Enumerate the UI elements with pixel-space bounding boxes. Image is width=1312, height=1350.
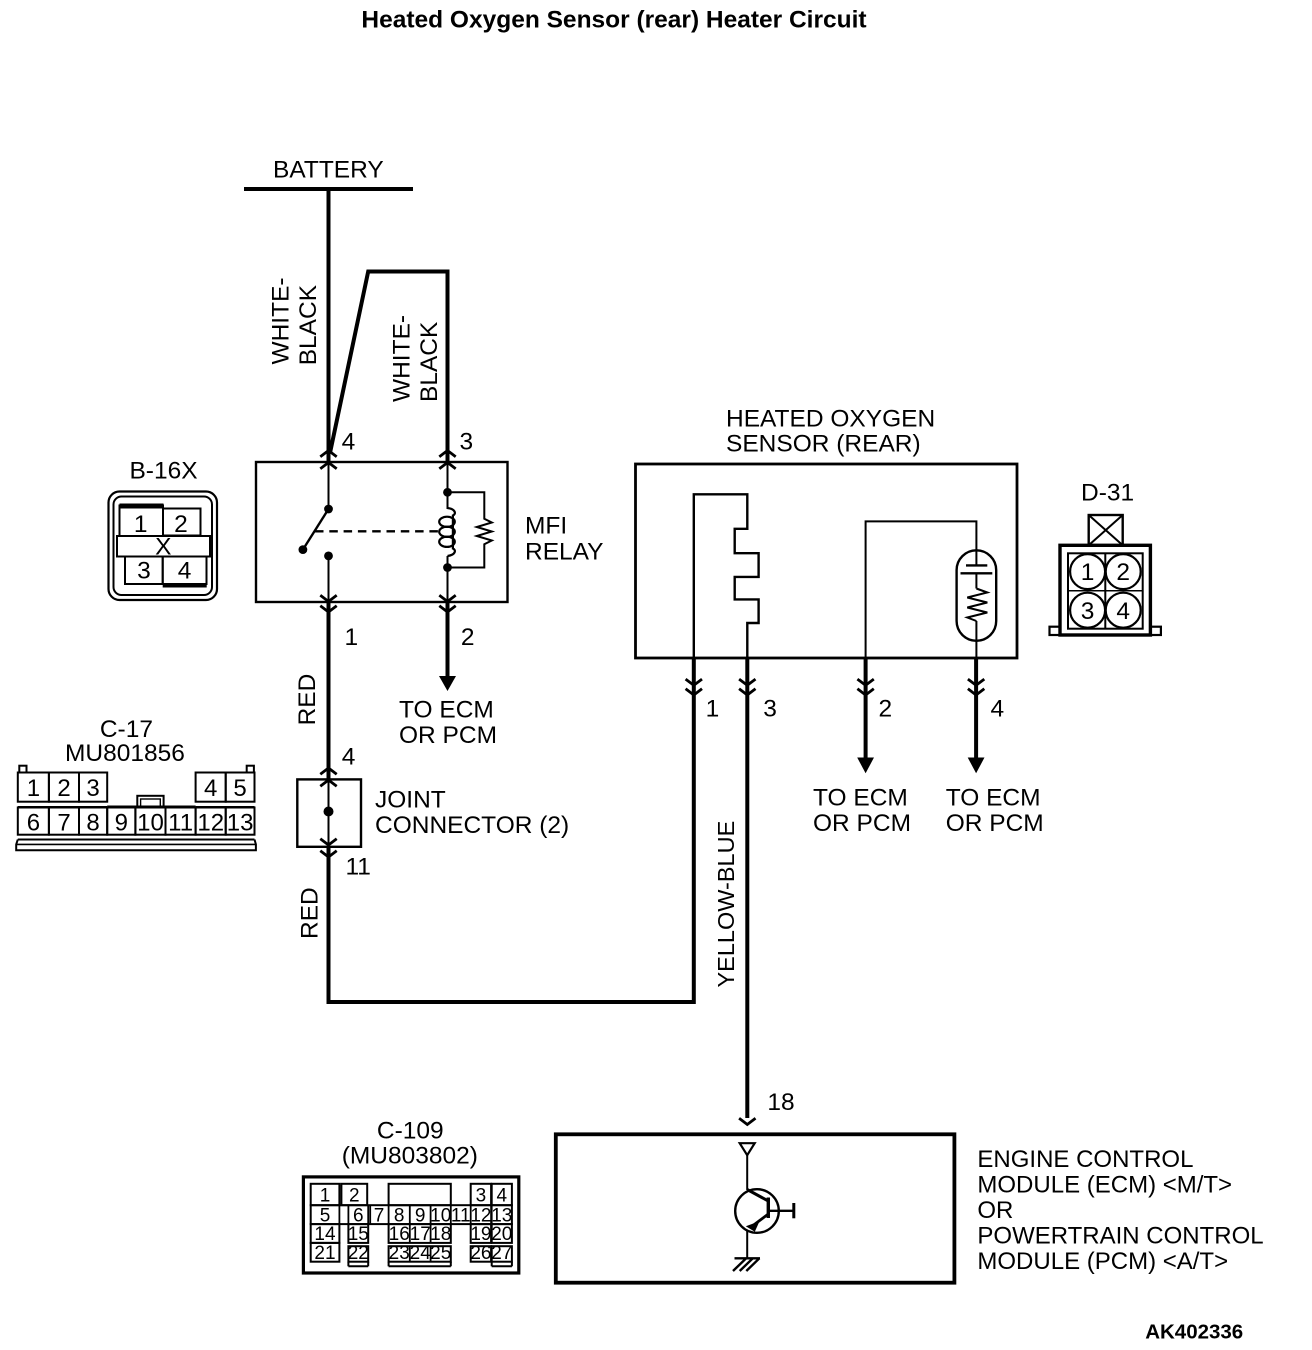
connector pin 1 of sensor: [686, 679, 702, 695]
label HEATED OXYGEN SENSOR (REAR): [726, 405, 935, 457]
svg-text:9: 9: [115, 810, 128, 837]
wire triangle to transistor: [746, 1155, 748, 1190]
svg-text:10: 10: [137, 810, 164, 837]
svg-text:WHITE-: WHITE-: [389, 315, 416, 402]
label TO ECM OR PCM (sensor pin 2): [813, 785, 911, 838]
label ENGINE CONTROL MODULE (ECM) / POWERTRAIN CONTROL MODULE (PCM): [977, 1146, 1263, 1275]
connector D-31 face: [1050, 515, 1161, 635]
connector C-109 face: [303, 1177, 518, 1273]
svg-text:BLACK: BLACK: [416, 321, 443, 402]
connector B-16X face: [109, 492, 218, 601]
svg-text:4: 4: [497, 1186, 508, 1207]
svg-text:1: 1: [706, 696, 720, 723]
connector pin 1 of MFI relay: [320, 595, 336, 612]
input triangle at ECM pin 18: [740, 1143, 755, 1155]
svg-text:2: 2: [461, 624, 475, 651]
svg-text:3: 3: [1081, 598, 1095, 625]
ground symbol: [733, 1258, 760, 1271]
heater element internals: [961, 550, 993, 658]
svg-text:25: 25: [430, 1243, 451, 1264]
svg-text:POWERTRAIN CONTROL: POWERTRAIN CONTROL: [977, 1222, 1263, 1249]
MFI relay box: [256, 462, 508, 602]
svg-text:2: 2: [174, 511, 188, 538]
connector pin 3 of MFI relay: [439, 451, 455, 469]
connector pin 11 of joint connector: [320, 839, 336, 857]
svg-text:D-31: D-31: [1081, 479, 1134, 506]
svg-text:11: 11: [346, 854, 371, 881]
battery: [244, 157, 413, 190]
svg-text:AK402336: AK402336: [1145, 1321, 1243, 1344]
joint connector box: [297, 779, 361, 846]
svg-text:1: 1: [134, 511, 148, 538]
D-31 pin numbers: [1081, 559, 1130, 625]
sensor element (zirconia comb): [694, 494, 759, 658]
svg-text:C-17: C-17: [100, 716, 153, 743]
heater circuit wires inside sensor: [866, 521, 977, 658]
svg-text:MODULE (ECM) <M/T>: MODULE (ECM) <M/T>: [977, 1171, 1232, 1198]
C-17 pin numbers: [27, 775, 254, 837]
heated oxygen sensor box: [636, 464, 1018, 658]
svg-text:B-16X: B-16X: [129, 458, 197, 485]
svg-text:3: 3: [476, 1186, 487, 1207]
svg-text:21: 21: [314, 1243, 335, 1264]
relay actuation dashed link: [315, 530, 440, 532]
svg-text:TO ECM: TO ECM: [946, 785, 1041, 812]
svg-text:OR PCM: OR PCM: [813, 810, 911, 837]
wire sensor pin 2 to ECM: [857, 658, 874, 773]
svg-text:23: 23: [389, 1243, 410, 1264]
svg-text:2: 2: [349, 1186, 360, 1207]
connector pin 3 of sensor: [739, 679, 755, 695]
svg-text:(MU803802): (MU803802): [342, 1143, 478, 1170]
svg-text:OR PCM: OR PCM: [946, 810, 1044, 837]
label TO ECM OR PCM (sensor pin 4): [946, 785, 1044, 838]
label TO ECM OR PCM (relay pin 2): [399, 697, 497, 750]
label JOINT CONNECTOR (2): [375, 786, 569, 839]
junction dot in joint connector: [324, 807, 334, 817]
B-16X pin numbers and key: [134, 511, 192, 585]
svg-text:YELLOW-BLUE: YELLOW-BLUE: [713, 821, 739, 988]
svg-text:1: 1: [27, 775, 40, 802]
svg-text:1: 1: [1081, 559, 1095, 586]
svg-text:26: 26: [470, 1243, 491, 1264]
svg-text:18: 18: [767, 1089, 794, 1116]
svg-text:6: 6: [27, 810, 40, 837]
wire WHITE-BLACK branch to MFI relay pin 3: [330, 272, 447, 463]
svg-text:2: 2: [1116, 559, 1130, 586]
connector pin 4 of sensor: [968, 679, 984, 695]
wire label WHITE-BLACK (left): [268, 277, 322, 365]
svg-text:3: 3: [763, 696, 777, 723]
svg-text:ENGINE CONTROL: ENGINE CONTROL: [977, 1146, 1193, 1173]
svg-text:WHITE-: WHITE-: [268, 277, 295, 364]
svg-text:11: 11: [168, 810, 193, 837]
svg-text:C-109: C-109: [377, 1118, 444, 1145]
svg-text:3: 3: [460, 428, 474, 455]
wire RED joint connector to heated oxygen sensor pin 1: [329, 658, 694, 1002]
wire RED relay pin 1 to joint connector: [327, 602, 331, 780]
svg-text:RED: RED: [297, 887, 324, 939]
svg-text:OR PCM: OR PCM: [399, 722, 497, 749]
svg-text:MU801856: MU801856: [65, 740, 185, 767]
svg-text:MODULE (PCM) <A/T>: MODULE (PCM) <A/T>: [977, 1248, 1228, 1275]
connector C-17 face: [16, 766, 256, 851]
connector pin 4 of MFI relay: [320, 451, 336, 469]
wire WHITE-BLACK battery to MFI relay pin 4: [327, 189, 331, 462]
relay switch contact: [299, 462, 333, 602]
wire sensor pin 4 to ECM: [968, 658, 985, 773]
svg-text:27: 27: [491, 1243, 512, 1264]
svg-text:MFI: MFI: [525, 512, 567, 539]
svg-text:RED: RED: [294, 674, 321, 726]
relay internal resistor: [448, 492, 492, 567]
svg-text:CONNECTOR (2): CONNECTOR (2): [375, 812, 569, 839]
wire relay pin 2 to ECM: [439, 602, 456, 691]
svg-text:4: 4: [991, 696, 1005, 723]
svg-text:1: 1: [345, 624, 359, 651]
svg-text:RELAY: RELAY: [525, 539, 604, 566]
svg-text:HEATED OXYGEN: HEATED OXYGEN: [726, 405, 935, 432]
svg-text:3: 3: [137, 558, 151, 585]
svg-text:TO ECM: TO ECM: [399, 697, 494, 724]
svg-text:11: 11: [451, 1205, 471, 1226]
connector pin 4 of joint connector: [320, 768, 336, 786]
relay coil: [439, 462, 455, 602]
heater element capsule: [957, 550, 997, 641]
connector pin 2 of sensor: [857, 679, 873, 695]
svg-text:7: 7: [57, 810, 70, 837]
svg-text:BATTERY: BATTERY: [273, 157, 384, 184]
ECM/PCM box: [556, 1134, 955, 1282]
connector pin 2 of MFI relay: [439, 595, 455, 612]
svg-text:1: 1: [320, 1186, 331, 1207]
svg-text:24: 24: [410, 1243, 432, 1264]
svg-text:4: 4: [342, 743, 356, 770]
wire YELLOW-BLUE sensor pin 3 to ECM pin 18: [745, 658, 749, 1118]
svg-text:12: 12: [197, 810, 224, 837]
svg-text:X: X: [155, 534, 171, 561]
connector C-17 label: [65, 716, 185, 767]
svg-text:22: 22: [348, 1243, 369, 1264]
svg-text:3: 3: [86, 775, 99, 802]
C-109 pin numbers: [314, 1186, 512, 1264]
svg-text:7: 7: [374, 1205, 385, 1226]
svg-text:Heated Oxygen Sensor (rear) He: Heated Oxygen Sensor (rear) Heater Circu…: [361, 7, 866, 34]
transistor Q1 (driver): [735, 1189, 794, 1258]
svg-text:BLACK: BLACK: [295, 284, 322, 365]
label MFI RELAY: [525, 512, 604, 565]
svg-text:2: 2: [879, 696, 893, 723]
connector pin 18 chevron at ECM: [739, 1118, 755, 1124]
svg-text:TO ECM: TO ECM: [813, 785, 908, 812]
svg-text:4: 4: [342, 428, 356, 455]
svg-text:13: 13: [227, 810, 254, 837]
svg-text:4: 4: [204, 775, 217, 802]
svg-text:4: 4: [1116, 598, 1130, 625]
svg-text:8: 8: [86, 810, 99, 837]
connector C-109 label: [342, 1118, 478, 1170]
svg-text:4: 4: [178, 558, 192, 585]
svg-text:SENSOR (REAR): SENSOR (REAR): [726, 431, 921, 458]
svg-text:OR: OR: [977, 1197, 1013, 1224]
svg-text:5: 5: [233, 775, 246, 802]
wire label WHITE-BLACK (right): [389, 315, 443, 402]
svg-text:JOINT: JOINT: [375, 786, 446, 813]
svg-text:2: 2: [57, 775, 70, 802]
